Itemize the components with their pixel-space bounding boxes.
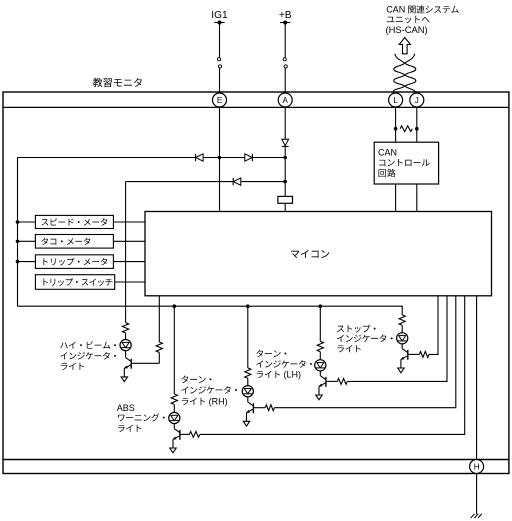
svg-text:ABS: ABS	[117, 403, 135, 413]
svg-text:H: H	[474, 463, 480, 472]
svg-text:CAN: CAN	[378, 147, 397, 157]
svg-text:A: A	[283, 96, 289, 105]
svg-text:E: E	[217, 96, 222, 105]
svg-text:(HS-CAN): (HS-CAN)	[386, 24, 428, 35]
svg-text:(RH): (RH)	[209, 397, 228, 407]
svg-text:IG1: IG1	[211, 10, 228, 21]
svg-text:L: L	[393, 96, 398, 105]
svg-text:(LH): (LH)	[284, 370, 302, 380]
svg-text:+B: +B	[279, 10, 292, 21]
svg-text:J: J	[415, 96, 419, 105]
svg-text:CAN: CAN	[386, 5, 405, 15]
